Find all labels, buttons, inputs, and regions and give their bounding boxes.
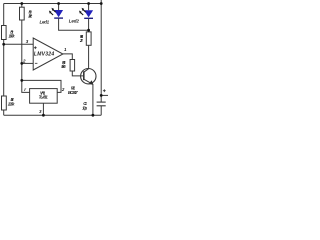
svg-text:5k6: 5k6 bbox=[61, 64, 66, 69]
svg-text:Led1: Led1 bbox=[40, 19, 50, 24]
svg-text:3: 3 bbox=[39, 109, 42, 114]
svg-text:100k: 100k bbox=[9, 34, 16, 39]
svg-text:r: r bbox=[24, 87, 26, 92]
svg-text:Led2: Led2 bbox=[69, 18, 80, 23]
svg-text:1: 1 bbox=[64, 47, 67, 52]
svg-text:TL431: TL431 bbox=[39, 94, 49, 99]
svg-text:220k: 220k bbox=[7, 101, 15, 106]
svg-text:2: 2 bbox=[22, 59, 26, 64]
svg-text:22: 22 bbox=[79, 38, 84, 43]
svg-text:2k2: 2k2 bbox=[27, 13, 33, 18]
svg-text:BC847: BC847 bbox=[68, 90, 78, 95]
svg-text:2: 2 bbox=[61, 87, 65, 92]
svg-text:LMV324: LMV324 bbox=[34, 52, 54, 58]
svg-text:3: 3 bbox=[26, 39, 29, 44]
svg-text:10µ: 10µ bbox=[82, 105, 88, 110]
